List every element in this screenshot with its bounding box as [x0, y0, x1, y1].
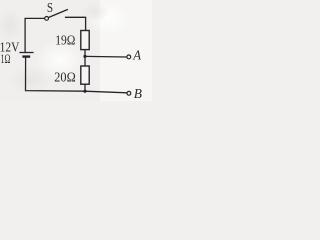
terminal A circle	[127, 55, 131, 59]
battery negative plate (short thick)	[22, 55, 30, 57]
wire: R1 bottom through node A junction to resistor R2 top	[84, 50, 86, 67]
svg-text:A: A	[132, 49, 141, 64]
svg-text:1Ω: 1Ω	[1, 52, 11, 66]
svg-text:S: S	[47, 0, 53, 15]
switch S blade (open)	[49, 9, 68, 17]
wire: node A to terminal A circle	[85, 55, 127, 58]
wire: R2 bottom to bottom junction	[84, 84, 86, 91]
svg-text:19Ω: 19Ω	[55, 33, 75, 48]
terminal B circle	[127, 91, 131, 95]
junction node at bottom	[83, 90, 86, 93]
svg-text:B: B	[134, 87, 143, 101]
wire: right of switch to top-right corner, down to resistor R1	[65, 17, 86, 31]
battery positive plate (long)	[19, 52, 33, 54]
wire: bottom run from junction to terminal B	[85, 91, 127, 93]
svg-text:20Ω: 20Ω	[54, 71, 75, 86]
resistor R2 20Ω body	[81, 66, 89, 84]
junction node at A tap	[83, 55, 86, 58]
resistor R1 19Ω body	[81, 31, 89, 50]
wire: battery - down to bottom-left corner then bottom wire to junction	[26, 57, 86, 92]
wire: left branch top (battery + to top-left corner, then right to switch)	[25, 18, 45, 52]
switch S contact circle	[45, 17, 49, 21]
